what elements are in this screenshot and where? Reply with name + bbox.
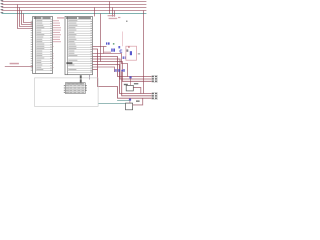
blue bracket mark — [120, 50, 122, 52]
LCD left pins — [64, 85, 66, 93]
connector K2 pins — [152, 93, 156, 99]
net label xtal1 — [108, 15, 116, 16]
wire fanout 2 — [20, 8, 33, 27]
relay RL2 label — [136, 100, 140, 102]
wire RL1 contact to K2 row1 — [133, 87, 141, 93]
connector K1 pins — [152, 76, 156, 82]
net labels between ICs — [53, 20, 61, 68]
IC U2 dark label X1 — [66, 62, 72, 64]
relay RL2 body — [126, 103, 133, 110]
blue label C1 — [111, 49, 115, 52]
LS1 top tick — [128, 46, 129, 48]
wire U2 row 61.5 to K1 pin3 — [93, 62, 153, 82]
wire vertical x100.5 — [100, 14, 102, 62]
wire teal gnd to RL2 — [98, 102, 125, 104]
wire U2 row 49 — [93, 49, 153, 98]
IC U1 pin row lines — [36, 19, 52, 70]
wire left input — [5, 66, 33, 68]
wire RL2 coil lead — [129, 101, 131, 103]
gray dot above LS1 — [126, 21, 128, 23]
LS1 value text — [138, 53, 140, 54]
relay RL1 label — [134, 83, 138, 84]
IC U2 body — [65, 17, 93, 75]
wire tap x114.5 — [114, 11, 116, 17]
wire U2 row 69.5 — [93, 69, 98, 71]
wire RL1 coil lead — [130, 78, 132, 85]
wire teal gnd stub — [117, 99, 129, 101]
LCD right pins — [85, 85, 86, 91]
bus label 2 — [1, 3, 4, 4]
wire drop to K2 pin2 — [122, 72, 153, 96]
IC U2 pin row lines — [68, 19, 92, 72]
wire U2 row 64.5 to K2 pin1 — [93, 65, 153, 94]
LS1 blue glyph — [130, 51, 132, 55]
net label mid — [104, 52, 111, 53]
bus label 1 — [1, 0, 4, 1]
wire U2 row 59 to K1 pin2 — [93, 59, 153, 79]
wire bus line 4 — [2, 10, 147, 12]
wire U2 bottom drop — [89, 75, 91, 80]
IC U1 pin column divider — [35, 17, 37, 74]
wire vertical x103.5 — [103, 47, 105, 54]
LS1 dark mark — [126, 49, 128, 51]
wire fanout 4 — [24, 14, 33, 23]
green mark — [113, 43, 115, 45]
wire U2 row 56.5 to K1 pin1 — [93, 57, 153, 77]
transistor Q1 label — [124, 84, 128, 85]
wire tap x94 — [94, 8, 96, 17]
wire U2 row 53.5 — [93, 54, 128, 77]
connector K1 outline — [152, 75, 158, 82]
IC U2 pin column divider — [66, 17, 68, 75]
LCD title row — [66, 83, 84, 84]
blue dot left of LS1 — [118, 46, 120, 48]
net label xtal2 — [109, 18, 118, 19]
LCD table grid — [65, 83, 85, 94]
LCD vertical label — [80, 75, 82, 82]
diode D3 (blue) — [129, 99, 131, 101]
IC U2 pin name text — [68, 20, 77, 70]
wire right drop x143.5 — [143, 11, 145, 94]
net label above U2 — [57, 17, 64, 18]
bus label 4 — [1, 9, 4, 10]
wire tap x112.5 — [112, 8, 114, 17]
IC U2 right pin numbers — [90, 21, 92, 72]
IC U1 pin name text — [36, 20, 44, 70]
blue dot — [121, 70, 123, 72]
wire bus line 3 — [2, 7, 147, 9]
wire bus line 5 (teal) — [2, 13, 147, 15]
wire tap x109.5 — [109, 2, 111, 14]
LS1 faint lead — [122, 32, 124, 47]
IC U1 body — [33, 17, 53, 74]
connector K2 outline — [152, 93, 158, 100]
relay RL1 body — [126, 85, 133, 91]
wire bus line 1 — [2, 1, 147, 3]
component LS1 pink box — [126, 46, 137, 60]
wire U2 row 67 — [93, 67, 115, 72]
LCD cell text — [66, 85, 85, 93]
blue label D1 — [123, 56, 127, 59]
net label left input — [10, 63, 19, 65]
blue label row RL — [115, 69, 126, 72]
LCD table body — [65, 83, 85, 94]
wire fanout 3 — [22, 11, 33, 25]
IC U1 right pin numbers — [50, 21, 52, 71]
IC U1 title — [34, 17, 51, 19]
blue label U3 — [106, 42, 110, 44]
wire U2 row 46.5 — [93, 46, 107, 48]
diode D2 (blue) — [129, 76, 131, 78]
IC U2 title — [66, 17, 91, 19]
red mark x118 — [118, 17, 120, 18]
wire bus line 2 — [2, 4, 147, 6]
wire fanout 1 — [18, 5, 33, 29]
subcircuit frame — [35, 78, 99, 107]
bus label 5 — [1, 12, 4, 13]
bus label 3 — [1, 6, 4, 7]
IC U1 left pin numbers — [31, 21, 33, 71]
wire RL2 contact to K2 row3 — [133, 98, 143, 105]
